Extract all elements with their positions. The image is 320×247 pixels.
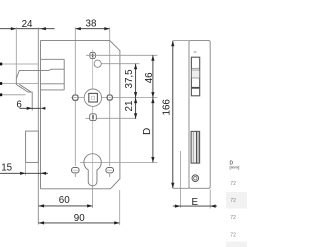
dim 6 line — [20, 107, 46, 110]
dim D line — [151, 98, 154, 163]
deadbolt ext line — [25, 162, 27, 175]
svg-text:38: 38 — [86, 19, 97, 30]
case outline — [41, 40, 120, 188]
case interior comb — [41, 59, 65, 90]
svg-text:D: D — [142, 128, 153, 135]
follower horizontal centerline — [71, 97, 157, 99]
dim 24 line — [0, 27, 55, 30]
follower — [84, 89, 101, 106]
mystery vertical line left of plate bottom — [179, 151, 181, 208]
faceplate top leader — [173, 40, 189, 42]
hole below follower — [86, 114, 137, 121]
faceplate (front view) — [189, 41, 210, 189]
dim 21 line — [134, 98, 137, 119]
leader from round hole — [102, 63, 140, 65]
svg-text:24: 24 — [22, 19, 33, 30]
cutoff leader y94.8 — [0, 94, 26, 96]
svg-text:72: 72 — [230, 232, 236, 238]
svg-text:90: 90 — [74, 213, 85, 224]
left screw hole upper — [73, 95, 78, 100]
latch cutout — [191, 57, 199, 96]
dim E line — [173, 205, 217, 208]
vertical centerline of case — [92, 50, 94, 187]
leader from slot hole — [86, 54, 157, 56]
faceplate back line / case left edge — [40, 40, 42, 188]
profile cylinder hole — [84, 154, 101, 186]
cutoff leader y83.5 latch centerline — [0, 83, 38, 85]
table — [226, 160, 247, 247]
svg-text:60: 60 — [59, 195, 70, 206]
svg-text:21: 21 — [124, 101, 135, 112]
right screw hole upper — [107, 95, 112, 100]
dim 46 line — [151, 55, 154, 97]
svg-text:46: 46 — [144, 72, 155, 83]
cutoff leader y64 — [0, 63, 38, 65]
dim 90 right ext — [119, 190, 121, 225]
plate right ext line — [209, 190, 211, 209]
faceplate screw hole — [192, 175, 199, 182]
deadbolt — [26, 131, 39, 162]
dim 15 line — [0, 172, 48, 175]
dim 37,5 line — [134, 64, 137, 98]
right screw hole lower — [106, 168, 114, 177]
deadbolt cutout with hatch — [191, 131, 200, 163]
svg-text:166: 166 — [161, 99, 172, 116]
faceplate front line — [37, 28, 39, 225]
dim 90 line — [39, 221, 120, 224]
dim 24 extension line — [15, 27, 17, 79]
dim 38 line — [75, 27, 110, 30]
centerline left screw column — [74, 28, 76, 167]
round hole — [94, 60, 101, 67]
latch bevel inner line — [19, 84, 31, 92]
svg-text:15: 15 — [1, 162, 12, 173]
left screw hole lower — [72, 168, 80, 177]
dim 166 line — [171, 41, 174, 189]
dim 60 line — [39, 204, 93, 207]
svg-text:72: 72 — [230, 181, 236, 187]
centerline right screw column — [109, 28, 111, 167]
small mark near top — [194, 51, 197, 52]
latch bolt — [16, 70, 40, 110]
dim 60 right ext — [92, 187, 94, 209]
svg-text:72: 72 — [230, 215, 236, 221]
top slot hole — [90, 52, 96, 58]
svg-text:72: 72 — [230, 198, 236, 204]
faceplate bottom leader — [173, 187, 189, 189]
svg-text:[mm]: [mm] — [230, 164, 240, 169]
svg-text:37,5: 37,5 — [124, 69, 135, 89]
cylinder centerline leader — [80, 162, 157, 164]
